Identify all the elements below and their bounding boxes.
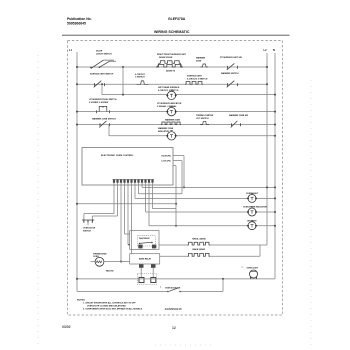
svg-text:1. CIRCUIT SHOWN WITH ALL CON: 1. CIRCUIT SHOWN WITH ALL CONTROLS SET T… — [83, 302, 136, 305]
svg-text:OVEN DOOR: OVEN DOOR — [83, 228, 96, 230]
svg-text:JA62059145: JA62059145 — [165, 307, 183, 311]
svg-text:2. COMPONENTS WITH IN DO N: 2. COMPONENTS WITH IN DO NOT APPEAR ON A… — [83, 308, 143, 311]
svg-text:NOTES:: NOTES: — [77, 300, 86, 302]
svg-text:12: 12 — [172, 326, 176, 330]
svg-text:Publication No.: Publication No. — [67, 17, 92, 21]
svg-text:2-CIRCUIT: 2-CIRCUIT — [135, 74, 146, 76]
svg-text:GLEF378A: GLEF378A — [168, 17, 186, 21]
svg-text:BAKE RELAY: BAKE RELAY — [139, 258, 152, 261]
svg-text:WARMER 600W: WARMER 600W — [165, 119, 180, 122]
svg-text:2400W 75: 2400W 75 — [166, 70, 176, 73]
svg-text:LATCH SWITCH: LATCH SWITCH — [96, 53, 112, 56]
svg-text:HT SURFACE PUSH SWITCH: HT SURFACE PUSH SWITCH — [89, 98, 117, 101]
svg-text:OVEN DOOR INDICATOR: OVEN DOOR INDICATOR — [243, 206, 267, 209]
svg-text:HT SURFACE INDICATOR: HT SURFACE INDICATOR — [157, 102, 182, 105]
svg-text:BAKE 2600W: BAKE 2600W — [193, 248, 206, 251]
svg-text:THERMO LIMITER: THERMO LIMITER — [196, 115, 214, 117]
svg-text:DLB RELAY: DLB RELAY — [139, 237, 150, 240]
svg-text:SURFACE UNIT SWITCH: SURFACE UNIT SWITCH — [90, 73, 114, 76]
svg-text:1 SWITCH: 1 SWITCH — [135, 77, 145, 79]
svg-text:WARMER ZONE: WARMER ZONE — [158, 127, 174, 130]
svg-text:INDICATOR: INDICATOR — [158, 130, 169, 133]
svg-text:WARMER SWITCH: WARMER SWITCH — [221, 72, 239, 75]
svg-text:RIGHT FRONT SURFACE UNIT: RIGHT FRONT SURFACE UNIT — [157, 53, 187, 56]
svg-text:FAN SW: FAN SW — [106, 270, 114, 273]
svg-text:WARMER ZONE SWITCH: WARMER ZONE SWITCH — [92, 118, 116, 121]
svg-text:OVEN DOOR SW: OVEN DOOR SW — [165, 288, 180, 290]
svg-text:2-CIRCUIT, 2 SWITCH: 2-CIRCUIT, 2 SWITCH — [158, 90, 179, 92]
svg-text:2-CIRCUIT, 2 SWITCH: 2-CIRCUIT, 2 SWITCH — [187, 78, 208, 80]
svg-text:2400W 2100W: 2400W 2100W — [159, 56, 172, 59]
svg-text:300W: 300W — [196, 60, 201, 62]
svg-text:CUT SWITCH: CUT SWITCH — [196, 118, 209, 120]
svg-text:LOCK (P6): LOCK (P6) — [162, 160, 171, 162]
svg-text:*: * — [242, 266, 243, 270]
svg-text:THERMOSTAT: THERMOSTAT — [93, 252, 107, 255]
svg-text:WARMER: WARMER — [196, 57, 206, 60]
svg-text:BROIL 3400W: BROIL 3400W — [193, 238, 206, 241]
svg-text:N: N — [273, 48, 275, 52]
svg-text:*: * — [160, 287, 161, 290]
svg-text:SWITCH: SWITCH — [83, 231, 91, 233]
svg-text:5995366645: 5995366645 — [67, 22, 86, 26]
svg-text:OVEN DOOR CLOSED AND UNLATCHED: OVEN DOOR CLOSED AND UNLATCHED — [87, 305, 126, 308]
svg-text:2 SIGNAL, 2 SIGNAL: 2 SIGNAL, 2 SIGNAL — [157, 105, 177, 108]
svg-text:LEFT REAR SURFACE: LEFT REAR SURFACE — [158, 86, 180, 89]
svg-text:RT SURFACE UNIT SW: RT SURFACE UNIT SW — [220, 56, 242, 59]
svg-text:DOOR: DOOR — [96, 51, 103, 53]
svg-text:WIRING SCHEMATIC: WIRING SCHEMATIC — [154, 30, 190, 34]
svg-text:DOOR (P5): DOOR (P5) — [162, 155, 172, 157]
svg-text:2 SCREW, 2 SCREW: 2 SCREW, 2 SCREW — [89, 102, 108, 104]
svg-text:WARMER ZONE SW: WARMER ZONE SW — [229, 114, 248, 117]
svg-text:ELECTRONIC OVEN CONTROL: ELECTRONIC OVEN CONTROL — [101, 155, 134, 157]
svg-text:OVEN LIGHT: OVEN LIGHT — [247, 268, 259, 270]
svg-text:SURFACE UNIT: SURFACE UNIT — [187, 75, 203, 78]
svg-text:03/02: 03/02 — [62, 325, 71, 329]
